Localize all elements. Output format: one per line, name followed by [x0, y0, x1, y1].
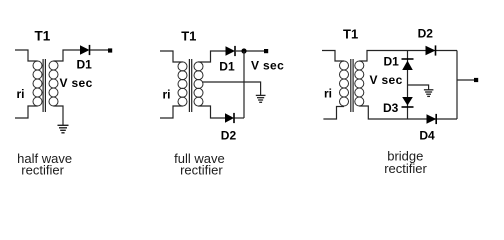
wire primary top (bridge)	[322, 51, 344, 62]
diode D3 (bridge)	[402, 97, 414, 107]
ground (full-wave center tap)	[256, 95, 266, 102]
diode D1 (half-wave)	[80, 45, 90, 55]
output terminal (full-wave)	[264, 49, 268, 53]
wire output (bridge)	[457, 79, 474, 81]
transformer T1 secondary winding (full-wave)	[194, 62, 203, 106]
transformer T1 secondary winding (half-wave)	[49, 61, 58, 106]
wire secondary bottom / bridge bottom rail with D4	[359, 106, 457, 119]
svg-text:T1: T1	[181, 28, 196, 43]
wire primary top (half-wave)	[15, 50, 38, 61]
transformer T1 secondary winding (bridge)	[355, 61, 364, 106]
svg-text:D2: D2	[418, 27, 434, 41]
wire secondary bottom to ground	[54, 106, 64, 125]
wire primary top (full-wave)	[160, 51, 183, 62]
wire bridge left branch (D1/D3)	[407, 51, 409, 120]
svg-text:ri: ri	[324, 87, 332, 101]
svg-text:rectifier: rectifier	[180, 162, 223, 177]
svg-text:D2: D2	[221, 129, 237, 143]
svg-text:V sec: V sec	[60, 76, 93, 90]
svg-text:rectifier: rectifier	[21, 162, 64, 177]
ground (half-wave)	[58, 125, 69, 133]
wire bridge mid node to ground	[408, 85, 429, 90]
transformer T1 primary winding (full-wave)	[178, 62, 187, 106]
svg-text:V sec: V sec	[251, 59, 284, 73]
diode D2 (bridge)	[426, 45, 436, 55]
junction node (diode outputs join)	[241, 48, 246, 53]
wire bridge right branch	[456, 51, 458, 120]
svg-text:D3: D3	[383, 101, 399, 115]
wire D2 cathode to junction line	[235, 117, 245, 119]
svg-text:D1: D1	[77, 58, 93, 72]
wire junction down to D2 cathode	[243, 51, 245, 118]
svg-text:T1: T1	[343, 27, 358, 42]
output terminal (half-wave)	[108, 48, 112, 52]
wire secondary top / bridge top rail with D2	[359, 51, 457, 62]
svg-text:T1: T1	[35, 28, 51, 43]
diode D1 (full-wave)	[226, 46, 236, 56]
diode D4 (bridge)	[427, 114, 437, 124]
transformer T1 primary winding (bridge)	[340, 61, 349, 106]
svg-text:D1: D1	[219, 60, 235, 74]
wire secondary top to diode D1	[199, 51, 226, 62]
diode D1 (bridge)	[402, 59, 414, 70]
wire primary bottom (full-wave)	[160, 106, 183, 118]
svg-text:ri: ri	[163, 88, 171, 102]
ground (bridge)	[424, 90, 434, 97]
wire center tap to ground	[202, 82, 261, 95]
wire D1 cathode to output node	[236, 50, 264, 52]
wire primary bottom (half-wave)	[15, 106, 38, 118]
svg-text:D1: D1	[384, 55, 400, 69]
wire D1 cathode to output terminal	[90, 49, 108, 51]
transformer T1 primary winding (half-wave)	[33, 61, 42, 106]
output terminal (bridge)	[474, 78, 478, 82]
wire primary bottom (bridge)	[323, 107, 344, 120]
svg-text:V sec: V sec	[370, 73, 403, 87]
wire secondary bottom to diode D2	[199, 106, 226, 118]
transformer T1 core (half-wave)	[43, 59, 45, 112]
transformer T1 core (full-wave)	[189, 59, 191, 112]
svg-text:rectifier: rectifier	[384, 161, 427, 176]
svg-text:ri: ri	[17, 87, 25, 101]
diode D2 (full-wave)	[225, 113, 234, 123]
svg-text:D4: D4	[419, 128, 435, 142]
transformer T1 core (bridge)	[351, 59, 353, 112]
wire secondary top to diode D1 anode	[54, 50, 81, 61]
